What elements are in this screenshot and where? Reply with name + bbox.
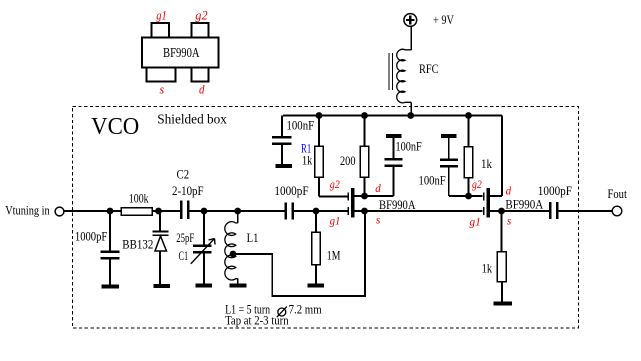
capacitor 1000pF output	[550, 202, 612, 219]
svg-text:d: d	[506, 186, 512, 198]
svg-text:+ 9V: + 9V	[433, 13, 454, 27]
resistor 1k Q2 gate2	[464, 116, 472, 197]
wire top rail	[283, 115, 502, 117]
svg-text:7.2 mm: 7.2 mm	[289, 303, 322, 317]
svg-text:L1: L1	[247, 231, 259, 245]
transistor Q1 BF990A	[348, 188, 482, 218]
svg-text:BF990A: BF990A	[505, 197, 543, 212]
svg-text:200: 200	[340, 154, 356, 168]
node Q1 source	[361, 208, 368, 215]
ground L1	[230, 284, 247, 288]
svg-text:g1: g1	[330, 216, 341, 228]
capacitor 100nF bypass left	[272, 116, 292, 165]
svg-text:Shielded box: Shielded box	[157, 111, 227, 126]
ground BB132	[154, 284, 171, 288]
resistor 100k	[121, 208, 152, 216]
terminal Fout	[612, 206, 622, 216]
svg-text:Fout: Fout	[608, 187, 628, 201]
svg-text:Tap at 2-3 turn: Tap at 2-3 turn	[225, 314, 289, 328]
svg-text:1k: 1k	[302, 154, 313, 168]
svg-text:1000pF: 1000pF	[75, 230, 107, 244]
svg-text:1M: 1M	[327, 249, 341, 263]
ground input 1000pF	[102, 285, 120, 289]
svg-text:100k: 100k	[129, 191, 149, 205]
node L1 top	[234, 208, 241, 215]
node L1 tap	[230, 251, 237, 258]
svg-text:g1: g1	[469, 217, 481, 229]
capacitor 100nF g2	[440, 138, 469, 196]
node 1k top	[465, 112, 472, 119]
wire g2 to Q2	[469, 195, 483, 197]
svg-text:g1: g1	[156, 8, 167, 22]
svg-text:d: d	[199, 82, 205, 96]
inverted ground g2 100nF	[441, 134, 457, 138]
capacitor 1000pF Q1 input	[286, 203, 348, 220]
svg-text:100nF: 100nF	[287, 119, 315, 133]
trimmer C1 25pF	[191, 211, 215, 284]
wire input	[64, 210, 121, 212]
inductor L1	[225, 211, 238, 284]
node input shunt	[107, 208, 114, 215]
ground 1k bottom	[494, 302, 512, 306]
node R1 top	[316, 112, 323, 119]
shielded box dashed border	[73, 107, 579, 329]
node Q2 g2	[465, 193, 472, 200]
wire R1 to g2	[319, 196, 348, 198]
svg-text:25pF: 25pF	[176, 231, 194, 245]
svg-text:1000pF: 1000pF	[274, 184, 308, 198]
svg-text:s: s	[507, 216, 512, 228]
wire supply to RFC	[410, 26, 412, 50]
resistor 1k Q2 source	[497, 211, 506, 302]
capacitor 1000pF input shunt	[100, 211, 119, 285]
svg-text:s: s	[160, 82, 165, 96]
package BF990A body	[142, 23, 219, 82]
svg-text:RFC: RFC	[419, 62, 439, 76]
node Q2 source	[498, 208, 505, 215]
varactor BB132	[153, 211, 169, 284]
ground 1M	[308, 284, 325, 288]
node RFC rail	[407, 112, 414, 119]
resistor 200	[360, 116, 368, 197]
resistor R1 1k	[315, 116, 323, 197]
svg-text:g2: g2	[195, 8, 207, 22]
svg-text:d: d	[375, 183, 381, 195]
svg-text:2-10pF: 2-10pF	[172, 184, 204, 198]
node C1	[201, 208, 208, 215]
svg-text:100nF: 100nF	[396, 139, 422, 153]
svg-text:VCO: VCO	[91, 113, 139, 140]
wire L1 tap feedback	[233, 211, 365, 296]
svg-text:g2: g2	[330, 179, 340, 191]
svg-text:1k: 1k	[482, 261, 493, 275]
svg-text:g2: g2	[472, 179, 482, 191]
wire Q1 source down	[364, 211, 366, 296]
svg-text:BF990A: BF990A	[163, 45, 200, 60]
supply +9V terminal	[404, 14, 417, 27]
capacitor C2 2-10pF	[181, 201, 284, 219]
wire RFC to rail	[410, 102, 412, 116]
node BB132	[155, 208, 162, 215]
svg-text:s: s	[376, 215, 381, 227]
capacitor 100nF drain	[385, 138, 403, 196]
node 1M	[313, 208, 320, 215]
svg-text:100nF: 100nF	[419, 173, 446, 187]
svg-text:1k: 1k	[481, 157, 493, 171]
svg-text:Vtuning in: Vtuning in	[5, 204, 50, 218]
resistor 1M	[312, 211, 320, 284]
svg-text:C1: C1	[179, 249, 189, 263]
svg-text:BF990A: BF990A	[379, 197, 416, 212]
symbol diameter	[277, 307, 287, 318]
RFC core	[388, 53, 390, 90]
svg-text:C2: C2	[177, 167, 190, 181]
node 200 top	[361, 112, 368, 119]
transistor Q2 BF990A	[484, 116, 549, 218]
wire 100k to C2	[152, 210, 180, 212]
inductor RFC	[397, 49, 412, 103]
ground left 100nF	[276, 164, 293, 168]
inverted ground drain 100nF	[386, 134, 402, 138]
svg-text:BB132: BB132	[122, 238, 153, 252]
svg-text:1000pF: 1000pF	[538, 184, 572, 198]
node Q1 drain	[361, 193, 368, 200]
ground C1	[196, 284, 213, 288]
terminal Vtuning in	[55, 207, 64, 216]
